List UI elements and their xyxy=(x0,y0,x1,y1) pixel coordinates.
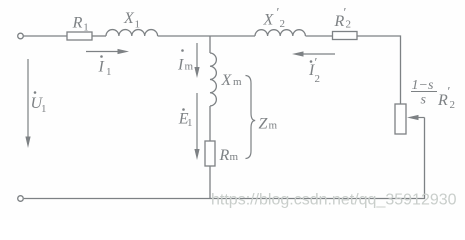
svg-text:I: I xyxy=(177,57,184,74)
svg-text:1: 1 xyxy=(41,103,47,115)
resistor R'2 xyxy=(333,32,358,40)
wire X'2 to R'2 xyxy=(306,35,333,37)
label E1 xyxy=(178,108,193,129)
label I'2 xyxy=(308,55,320,86)
wire X1 to X'2 through node xyxy=(158,35,255,37)
terminal bottom-left xyxy=(18,196,24,202)
svg-text:′: ′ xyxy=(315,55,318,70)
terminal top-left xyxy=(18,33,24,39)
svg-text:https://blog.csdn.net/qq_35912: https://blog.csdn.net/qq_35912930 xyxy=(211,192,457,209)
wire node to Xm xyxy=(209,36,211,53)
label X'2 xyxy=(263,5,286,31)
label X1 xyxy=(123,10,140,31)
label R1 xyxy=(72,15,89,34)
svg-text:1: 1 xyxy=(106,66,112,78)
svg-text:′: ′ xyxy=(448,84,451,99)
svg-text:m: m xyxy=(233,76,242,88)
svg-text:X: X xyxy=(263,12,275,29)
inductor X1 xyxy=(106,30,158,36)
svg-text:Z: Z xyxy=(259,116,269,133)
svg-text:′: ′ xyxy=(344,5,347,20)
svg-text:2: 2 xyxy=(315,73,321,85)
svg-text:m: m xyxy=(230,151,239,163)
brace Zm xyxy=(246,76,256,159)
svg-text:2: 2 xyxy=(346,19,352,31)
wire top: terminal to R1 xyxy=(24,35,68,37)
resistor R1 xyxy=(67,32,92,40)
svg-text:R: R xyxy=(72,15,83,32)
wire Xm to Rm xyxy=(209,106,211,141)
label Im xyxy=(177,49,194,73)
label Rm xyxy=(219,147,239,164)
wire R'2 to right corner xyxy=(357,36,401,104)
label Xm xyxy=(221,72,243,89)
label U1 xyxy=(31,91,47,115)
svg-text:X: X xyxy=(221,72,233,89)
svg-text:m: m xyxy=(185,61,194,73)
label R'2 xyxy=(334,5,352,31)
svg-text:m: m xyxy=(269,120,278,132)
svg-text:R: R xyxy=(219,147,230,164)
arrow E1 (emf, down) xyxy=(196,93,198,150)
arrow slider of (1-s)/s R'2 (leftward into box) xyxy=(417,117,425,119)
wire R1 to X1 xyxy=(92,35,106,37)
svg-text:1: 1 xyxy=(83,22,89,34)
label (1-s)/s R'2 xyxy=(412,78,456,111)
svg-text:s: s xyxy=(421,93,427,108)
arrow I1 (current into stator) xyxy=(86,51,119,53)
inductor X'2 xyxy=(255,30,305,36)
inductor Xm xyxy=(210,53,216,106)
wire slider down to bottom rail xyxy=(24,118,425,199)
svg-text:2: 2 xyxy=(450,99,456,111)
arrow Im (magnetizing current, down) xyxy=(196,43,198,68)
svg-text:1: 1 xyxy=(187,117,193,129)
fraction bar of (1-s)/s xyxy=(411,91,437,93)
svg-text:R: R xyxy=(437,92,448,109)
svg-text:2: 2 xyxy=(280,18,286,30)
svg-text:X: X xyxy=(123,10,135,27)
label Zm xyxy=(259,116,278,133)
wire Rm to bottom rail xyxy=(209,166,211,199)
arrow U1 (voltage, downward) xyxy=(27,59,29,138)
arrow I'2 (rotor current, leftward) xyxy=(303,53,336,55)
resistor (1-s)/s R'2 xyxy=(395,104,406,134)
svg-text:I: I xyxy=(98,59,105,76)
svg-text:1−s: 1−s xyxy=(412,78,434,93)
svg-text:1: 1 xyxy=(135,19,141,31)
label I1 xyxy=(98,55,112,78)
resistor Rm xyxy=(205,141,215,166)
